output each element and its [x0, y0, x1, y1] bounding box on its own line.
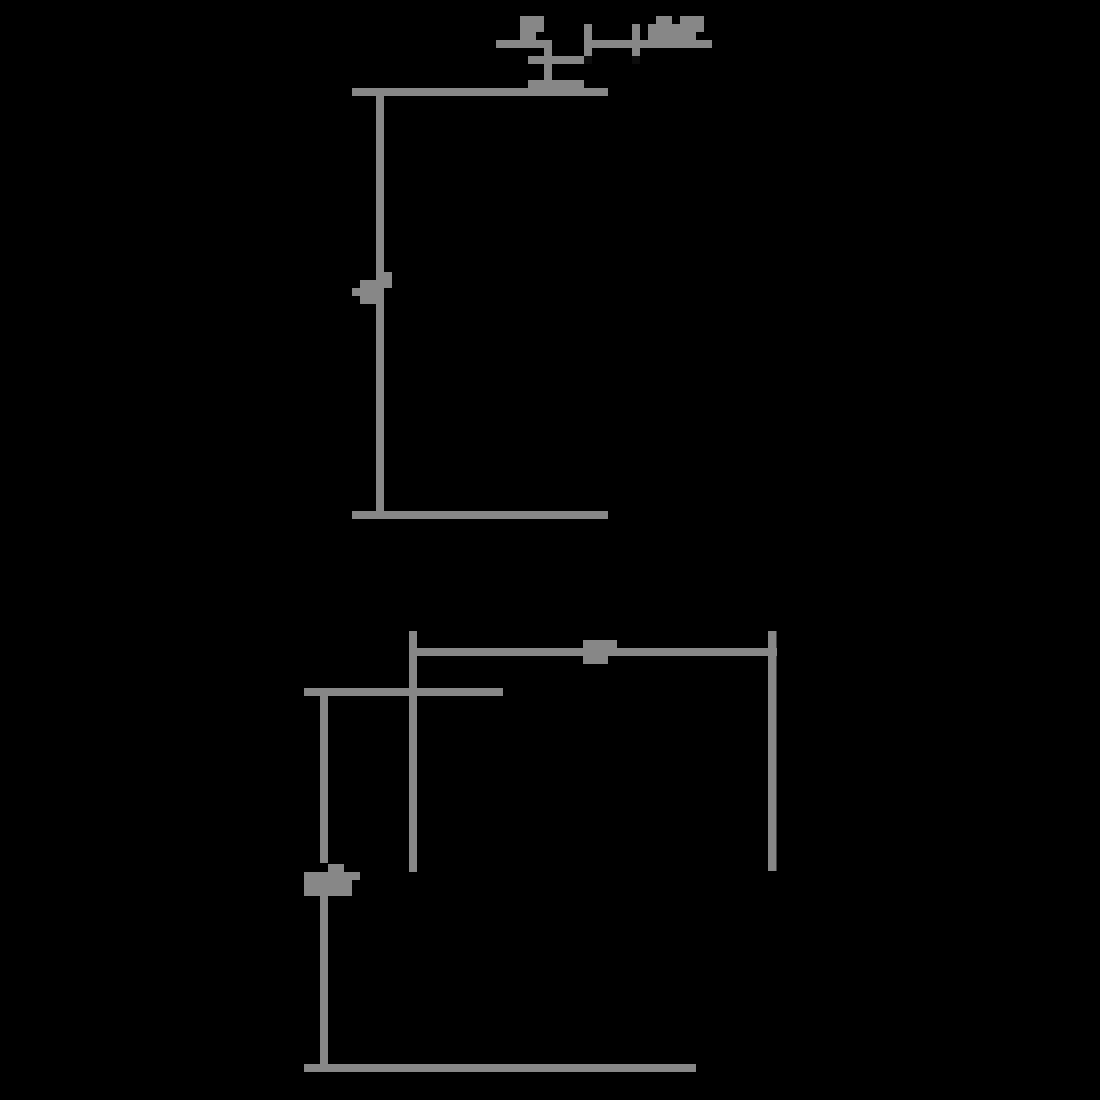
extension tick left (lower figure): [409, 631, 417, 872]
dimension label blob (left dimension): [304, 864, 360, 896]
extension line bottom (upper figure): [352, 511, 608, 519]
dimension label blob (upper figure): [352, 272, 392, 304]
annotation tick B: [632, 24, 640, 56]
annotation bar left: [496, 40, 552, 48]
extension line top (upper figure): [352, 88, 608, 96]
annotation center tick: [544, 40, 552, 88]
annotation dark square 1: [584, 56, 592, 64]
annotation bar right: [592, 40, 712, 48]
annotation baseline blob: [528, 80, 584, 88]
dimension line vertical lower segment (left dimension): [320, 896, 328, 1064]
annotation dark square 2: [632, 56, 640, 64]
dimension line horizontal (lower figure): [409, 648, 777, 656]
extension line top (left dimension): [304, 688, 503, 696]
dimension label blob (horizontal dimension): [583, 640, 617, 664]
annotation glyph P: [520, 16, 544, 40]
extension tick right (lower figure): [768, 631, 777, 871]
extension line bottom (left dimension): [304, 1064, 696, 1072]
dimension line vertical (upper figure): [376, 96, 384, 512]
annotation text blob upper: [648, 16, 704, 40]
dimension line vertical upper segment (left dimension): [320, 696, 328, 863]
annotation tick A: [584, 24, 592, 56]
annotation text row lower: [528, 56, 584, 64]
